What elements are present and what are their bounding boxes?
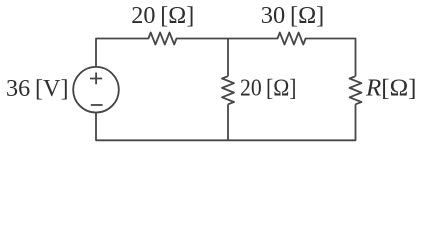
svg-text:30 [Ω]: 30 [Ω] — [261, 2, 325, 29]
svg-text:20 [Ω]: 20 [Ω] — [131, 2, 194, 29]
svg-text:36 [V]: 36 [V] — [6, 75, 69, 102]
svg-text:R[Ω]: R[Ω] — [365, 74, 417, 101]
svg-text:20 [Ω]: 20 [Ω] — [240, 74, 297, 101]
